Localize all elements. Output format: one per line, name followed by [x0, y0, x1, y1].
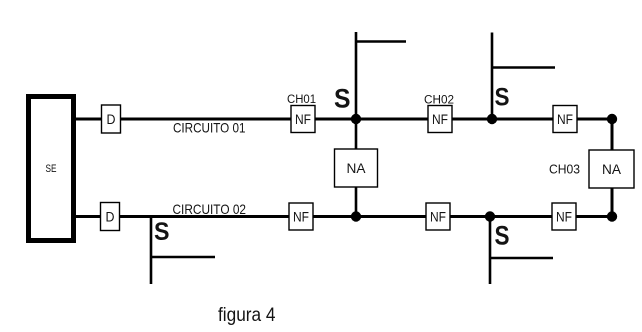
label CH01 [287, 94, 316, 106]
wire vertical tie at x=356 (branch top through NA to circuit 02) [355, 32, 358, 217]
svg-text:S: S [495, 221, 510, 251]
wire circuit 01 bus [76, 118, 612, 121]
disconnect D2 on circuit 02 [101, 203, 120, 231]
svg-text:D: D [107, 111, 116, 127]
svg-text:NF: NF [293, 209, 309, 225]
switch NF right end of circuit 01 [553, 106, 577, 133]
caption figura 4 [218, 304, 276, 326]
svg-text:S: S [495, 84, 510, 112]
switch NF CH01 on circuit 01 [291, 106, 315, 133]
wire bottom branch at x=151 [150, 217, 153, 285]
switch NF CH02 on circuit 01 [428, 106, 452, 133]
svg-text:CIRCUITO 01: CIRCUITO 01 [173, 120, 246, 136]
svg-text:NF: NF [295, 111, 311, 127]
label CIRCUITO 01 [173, 120, 246, 136]
switch NF first on circuit 02 [289, 203, 313, 230]
switch label S top-right [495, 84, 510, 112]
wire bottom branch at x=490 [489, 217, 492, 285]
node junction circuit01 x=492 [487, 114, 497, 124]
wire top branch at x=492 [491, 33, 494, 120]
tie switch NA2 (CH03) between circuits [589, 150, 634, 188]
switch label S bottom-right [495, 221, 510, 251]
svg-text:NF: NF [556, 209, 572, 225]
substation SE [29, 97, 74, 241]
wire branch bar bottom-left lateral [151, 256, 215, 259]
wire branch bar top-right lateral [492, 66, 555, 69]
switch NF right end of circuit 02 [552, 203, 576, 230]
svg-text:CIRCUITO 02: CIRCUITO 02 [173, 201, 247, 217]
label CH03 [549, 162, 580, 177]
label CH02 [424, 95, 454, 107]
svg-text:S: S [334, 84, 351, 114]
node junction circuit02 x=490 [485, 211, 495, 221]
svg-text:NA: NA [347, 160, 367, 176]
tie switch NA1 between circuits [335, 149, 378, 187]
node junction circuit01 x=356 [351, 114, 361, 124]
svg-text:NA: NA [602, 161, 622, 177]
svg-text:NF: NF [432, 111, 448, 127]
svg-text:S: S [154, 218, 170, 246]
svg-text:D: D [106, 209, 115, 225]
node junction circuit01 x=612 [607, 114, 617, 124]
wire vertical tie at x=612 (circuit 01 to circuit 02 through NA CH03) [611, 119, 614, 217]
svg-text:CH01: CH01 [287, 94, 316, 106]
svg-text:CH03: CH03 [549, 162, 580, 177]
node junction circuit02 x=356 [351, 211, 361, 221]
svg-text:figura 4: figura 4 [218, 304, 276, 326]
svg-text:SE: SE [46, 163, 57, 175]
disconnect D1 on circuit 01 [102, 105, 121, 133]
switch label S bottom-left [154, 218, 170, 246]
switch NF second on circuit 02 [426, 203, 450, 230]
svg-text:NF: NF [557, 111, 573, 127]
wire branch bar top-left lateral [356, 40, 406, 43]
svg-text:CH02: CH02 [424, 95, 454, 107]
node junction circuit02 x=612 [607, 211, 617, 221]
svg-text:NF: NF [430, 209, 446, 225]
wire circuit 02 bus [76, 215, 612, 218]
label CIRCUITO 02 [173, 201, 247, 217]
switch label S top-left [334, 84, 351, 114]
wire branch bar bottom-right lateral [490, 257, 553, 260]
